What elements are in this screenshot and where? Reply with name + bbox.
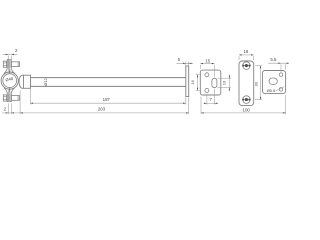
rod (shaft to flange)	[31, 78, 186, 87]
svg-text:7: 7	[210, 97, 213, 102]
label Ø5.5 with leader (view3 holes)	[267, 87, 285, 94]
view3 base plate outline	[262, 71, 285, 94]
dimension 18 (view2 width)	[239, 49, 254, 60]
view1 hole bottom	[205, 88, 209, 92]
flange plate side view	[186, 66, 189, 97]
svg-text:2: 2	[4, 107, 7, 112]
svg-text:Ø5.5: Ø5.5	[267, 88, 276, 93]
dimension 15 (view1 edge to slot center)	[200, 59, 214, 77]
view3 hole bottom	[279, 88, 283, 92]
view2 screw top	[242, 62, 251, 70]
svg-text:16: 16	[190, 79, 195, 84]
svg-text:18: 18	[243, 49, 248, 54]
view1 flange plate outline	[200, 70, 221, 95]
label Ø12 (rod diameter)	[43, 77, 48, 85]
dimension 2 (clamp band thickness, top)	[3, 48, 18, 59]
dimension 16 (flange hole spacing)	[190, 75, 200, 91]
dimension 7 (view1 hole to slot center)	[204, 89, 219, 105]
svg-text:Ø48: Ø48	[5, 76, 14, 83]
svg-text:10: 10	[222, 80, 227, 85]
dimension 100 (mounting plate overall)	[201, 95, 286, 114]
dimension 30 (view2 screw spacing)	[253, 66, 262, 100]
svg-text:203: 203	[98, 107, 106, 112]
rod sleeve socket	[19, 75, 31, 88]
clamp bolt bottom (hex head + shaft)	[3, 95, 19, 101]
view3 hole top	[279, 73, 283, 77]
svg-text:30: 30	[253, 81, 258, 86]
pipe clamp ring inner	[3, 74, 17, 88]
svg-text:100: 100	[243, 108, 251, 113]
view1 hole top	[205, 73, 209, 77]
svg-text:5.5: 5.5	[270, 57, 277, 62]
svg-text:2: 2	[15, 48, 18, 53]
dimension 10 (view1 slot length)	[218, 74, 232, 91]
svg-text:Ø12: Ø12	[43, 77, 48, 85]
view2 screw bottom	[242, 96, 251, 104]
label Ø48 (clamp diameter)	[5, 76, 14, 83]
clamp bolt top (hex head + shaft)	[3, 61, 19, 67]
clamp ear plates top	[4, 60, 15, 74]
dimension 5 (flange thickness)	[177, 57, 194, 65]
view3 square slot	[269, 78, 277, 84]
svg-text:5: 5	[178, 57, 181, 62]
dimension 203 (overall length)	[20, 91, 189, 115]
svg-text:15: 15	[205, 59, 210, 64]
view1 slot (oblong hole)	[212, 78, 217, 88]
dimension 187 (rod length)	[30, 88, 185, 105]
dimension 2 (clamp band thickness, bottom)	[2, 103, 20, 114]
svg-text:187: 187	[103, 97, 111, 102]
dimension 5.5 (view3 hole to edge)	[268, 57, 289, 72]
clamp ear plates bottom	[4, 87, 15, 101]
view2 bracket plate outline	[239, 61, 254, 106]
pipe clamp ring outer	[1, 72, 18, 89]
